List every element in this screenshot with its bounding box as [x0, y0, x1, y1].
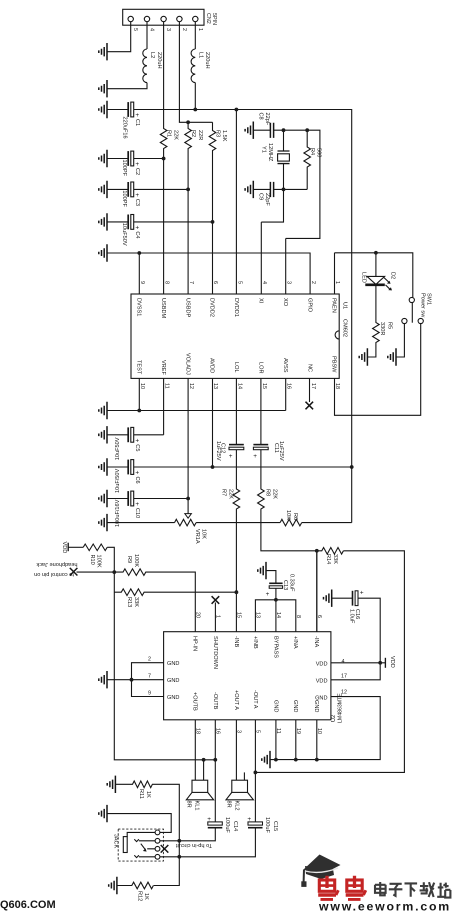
- svg-text:-INA: -INA: [313, 636, 319, 647]
- svg-text:9: 9: [148, 691, 151, 697]
- svg-text:100PF: 100PF: [121, 190, 127, 207]
- svg-text:R6: R6: [292, 513, 298, 520]
- svg-text:13: 13: [255, 612, 261, 618]
- svg-text:33K: 33K: [332, 554, 338, 564]
- svg-text:+: +: [135, 161, 139, 168]
- svg-text:XI: XI: [258, 298, 264, 304]
- svg-text:22K: 22K: [172, 130, 178, 140]
- svg-text:L1: L1: [197, 52, 203, 58]
- svg-text:14: 14: [237, 383, 243, 389]
- svg-text:KL2: KL2: [233, 801, 239, 811]
- svg-text:+: +: [360, 590, 364, 597]
- svg-text:+INA: +INA: [292, 636, 298, 649]
- svg-text:-OUT A: -OUT A: [252, 690, 258, 709]
- svg-text:2: 2: [148, 657, 151, 663]
- svg-text:R7: R7: [221, 489, 227, 496]
- svg-text:10: 10: [139, 383, 145, 389]
- svg-text:VREF: VREF: [160, 360, 166, 376]
- svg-text:7: 7: [188, 281, 194, 284]
- svg-text:USBDM: USBDM: [160, 298, 166, 319]
- svg-text:8R: 8R: [186, 801, 192, 808]
- svg-text:LOL: LOL: [233, 362, 239, 373]
- svg-text:U2: U2: [331, 715, 337, 722]
- svg-text:20: 20: [195, 612, 201, 618]
- svg-text:C3: C3: [134, 199, 140, 206]
- svg-text:PBSW: PBSW: [331, 356, 337, 373]
- svg-text:D2: D2: [390, 272, 396, 279]
- svg-text:VOLADJ: VOLADJ: [184, 353, 190, 375]
- svg-text:C13: C13: [282, 580, 288, 590]
- svg-text:11: 11: [163, 383, 169, 389]
- svg-text:CM602: CM602: [341, 319, 347, 337]
- svg-text:220uH: 220uH: [204, 52, 210, 68]
- svg-text:R3: R3: [215, 130, 221, 137]
- svg-text:DVDD1: DVDD1: [233, 298, 239, 317]
- svg-text:5PIN: 5PIN: [211, 13, 217, 25]
- svg-text:-OUTB: -OUTB: [212, 692, 218, 710]
- svg-text:12: 12: [341, 690, 347, 696]
- svg-text:GND: GND: [313, 700, 319, 712]
- svg-text:+: +: [247, 816, 251, 823]
- svg-text:to control pin on: to control pin on: [34, 571, 74, 577]
- svg-text:+: +: [135, 437, 139, 444]
- svg-text:GND: GND: [315, 696, 327, 702]
- svg-text:headphone Jack: headphone Jack: [36, 561, 77, 567]
- svg-text:220uF16: 220uF16: [122, 117, 128, 139]
- svg-text:15: 15: [261, 383, 267, 389]
- svg-text:+: +: [135, 470, 139, 477]
- svg-text:GND: GND: [167, 661, 179, 667]
- svg-text:8: 8: [295, 615, 301, 618]
- svg-text:5: 5: [237, 281, 243, 284]
- svg-text:14: 14: [275, 612, 281, 618]
- svg-text:0.33uF: 0.33uF: [289, 574, 295, 592]
- svg-text:1.0uF: 1.0uF: [348, 609, 354, 624]
- svg-text:+: +: [207, 816, 211, 823]
- svg-text:BYPASS: BYPASS: [272, 636, 278, 658]
- svg-text:18: 18: [334, 383, 340, 389]
- svg-text:10uF/50V: 10uF/50V: [115, 468, 121, 493]
- svg-text:NC: NC: [306, 364, 312, 372]
- svg-text:KL1: KL1: [194, 801, 200, 811]
- svg-text:Power sw: Power sw: [420, 293, 426, 318]
- svg-text:1: 1: [334, 281, 340, 284]
- svg-text:15: 15: [236, 612, 242, 618]
- svg-text:L2: L2: [149, 52, 155, 58]
- svg-text:VDD: VDD: [316, 679, 328, 685]
- svg-text:+: +: [135, 192, 139, 199]
- svg-text:HP-IN: HP-IN: [192, 636, 198, 651]
- svg-text:C15: C15: [272, 821, 278, 831]
- svg-text:C6: C6: [134, 477, 140, 484]
- svg-text:C1: C1: [134, 119, 140, 126]
- svg-text:AVSS: AVSS: [282, 358, 288, 373]
- svg-text:+: +: [229, 453, 233, 460]
- svg-text:www.eeworm.com: www.eeworm.com: [318, 900, 451, 912]
- svg-text:22pF: 22pF: [264, 113, 270, 126]
- svg-text:R10: R10: [89, 555, 95, 565]
- svg-text:7: 7: [148, 674, 151, 680]
- svg-text:C2: C2: [134, 168, 140, 175]
- svg-text:1uF25V: 1uF25V: [215, 441, 221, 461]
- svg-text:USBDP: USBDP: [184, 298, 190, 318]
- svg-text:10K: 10K: [285, 510, 291, 520]
- svg-text:VDD: VDD: [61, 542, 67, 554]
- svg-text:1: 1: [215, 615, 221, 618]
- svg-text:C4: C4: [134, 231, 140, 238]
- svg-text:R11: R11: [138, 789, 144, 799]
- svg-text:100PF: 100PF: [121, 160, 127, 177]
- svg-text:DVSS1: DVSS1: [136, 298, 142, 316]
- svg-text:10uF50V: 10uF50V: [115, 437, 121, 460]
- svg-text:C5: C5: [134, 444, 140, 451]
- svg-text:5: 5: [132, 28, 138, 31]
- svg-text:JACK: JACK: [113, 834, 119, 849]
- svg-text:2: 2: [310, 281, 316, 284]
- svg-text:R2: R2: [190, 130, 196, 137]
- svg-text:33K: 33K: [133, 597, 139, 607]
- svg-text:6: 6: [212, 281, 218, 284]
- svg-text:4: 4: [342, 659, 345, 665]
- svg-text:GND: GND: [167, 695, 179, 701]
- svg-text:+OUT A: +OUT A: [233, 690, 239, 710]
- svg-text:100uF: 100uF: [264, 817, 270, 833]
- svg-text:6: 6: [316, 615, 322, 618]
- svg-text:+: +: [135, 112, 139, 119]
- svg-text:+INB: +INB: [252, 636, 258, 649]
- svg-text:+: +: [266, 591, 270, 598]
- svg-text:U1: U1: [341, 302, 347, 309]
- svg-text:9: 9: [139, 281, 145, 284]
- svg-text:R12: R12: [136, 891, 142, 901]
- svg-text:+: +: [135, 501, 139, 508]
- svg-text:VR1A: VR1A: [194, 529, 200, 544]
- svg-text:4: 4: [261, 281, 267, 284]
- svg-text:2: 2: [181, 28, 187, 31]
- svg-text:10uF50V: 10uF50V: [121, 223, 127, 246]
- svg-text:100K: 100K: [133, 554, 139, 567]
- svg-text:100K: 100K: [96, 555, 102, 568]
- svg-text:C14: C14: [232, 821, 238, 831]
- svg-text:VDD: VDD: [389, 656, 395, 668]
- svg-text:100uF: 100uF: [224, 817, 230, 833]
- svg-text:GND: GND: [167, 678, 179, 684]
- svg-text:LM4863MTE: LM4863MTE: [338, 693, 344, 723]
- svg-text:+: +: [253, 453, 257, 460]
- svg-text:R8: R8: [265, 489, 271, 496]
- svg-text:+: +: [135, 224, 139, 231]
- svg-text:R14: R14: [325, 554, 331, 564]
- svg-text:R13: R13: [126, 597, 132, 607]
- svg-text:17: 17: [310, 383, 316, 389]
- svg-text:Q606.COM: Q606.COM: [0, 899, 56, 911]
- svg-text:+OUTB: +OUTB: [192, 692, 198, 711]
- svg-text:12: 12: [188, 383, 194, 389]
- svg-text:DVDD2: DVDD2: [209, 298, 215, 317]
- svg-text:22pF: 22pF: [264, 193, 270, 206]
- svg-text:R5: R5: [387, 322, 393, 329]
- svg-text:LED: LED: [361, 272, 367, 283]
- svg-text:1uF25V: 1uF25V: [278, 441, 284, 461]
- svg-text:Y1: Y1: [261, 146, 267, 153]
- svg-text:8: 8: [163, 281, 169, 284]
- svg-text:1.5K: 1.5K: [221, 130, 227, 142]
- svg-text:C9: C9: [258, 193, 264, 200]
- svg-text:-INB: -INB: [233, 636, 239, 647]
- svg-text:3: 3: [285, 281, 291, 284]
- svg-text:AVDD: AVDD: [209, 358, 215, 373]
- svg-text:GND: GND: [272, 700, 278, 712]
- svg-text:XO: XO: [282, 298, 288, 307]
- svg-text:12MHZ: 12MHZ: [267, 143, 273, 162]
- svg-text:10K: 10K: [201, 529, 207, 539]
- svg-text:SHUTDOWN: SHUTDOWN: [212, 636, 218, 669]
- svg-text:13: 13: [212, 383, 218, 389]
- svg-text:220uH: 220uH: [156, 52, 162, 68]
- svg-text:1K: 1K: [143, 893, 149, 900]
- svg-text:22R: 22R: [197, 130, 203, 140]
- svg-text:22K: 22K: [228, 489, 234, 499]
- svg-text:To hp-in circuit: To hp-in circuit: [175, 842, 212, 848]
- svg-text:330R: 330R: [379, 322, 385, 335]
- svg-text:8R: 8R: [226, 801, 232, 808]
- svg-text:1K: 1K: [145, 791, 151, 798]
- svg-text:PAEN: PAEN: [331, 298, 337, 313]
- svg-text:CN2: CN2: [205, 13, 211, 24]
- svg-text:16: 16: [285, 383, 291, 389]
- svg-text:C10: C10: [134, 508, 140, 518]
- svg-text:1: 1: [197, 28, 203, 31]
- svg-text:C8: C8: [258, 113, 264, 120]
- svg-text:GND: GND: [292, 700, 298, 712]
- svg-text:R9: R9: [126, 556, 132, 563]
- svg-text:TEST: TEST: [136, 360, 142, 375]
- svg-text:R1: R1: [166, 130, 172, 137]
- svg-text:GPIO: GPIO: [306, 298, 312, 313]
- svg-text:22K: 22K: [272, 489, 278, 499]
- svg-text:VDD: VDD: [316, 662, 328, 668]
- svg-text:LOR: LOR: [258, 362, 264, 374]
- svg-text:17: 17: [341, 674, 347, 680]
- svg-text:R4: R4: [309, 148, 315, 155]
- svg-text:4: 4: [149, 28, 155, 31]
- svg-text:3: 3: [165, 28, 171, 31]
- svg-text:560: 560: [316, 148, 322, 157]
